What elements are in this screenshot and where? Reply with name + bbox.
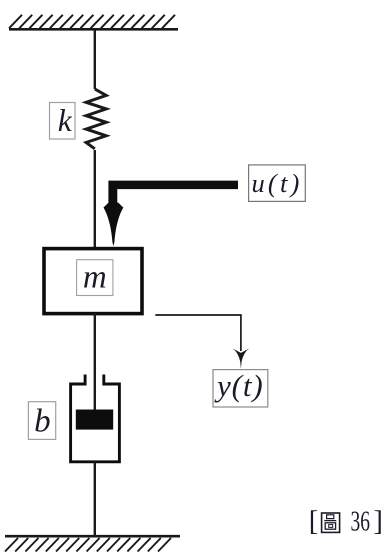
floor hatching bbox=[5, 538, 171, 552]
label box b bbox=[28, 402, 55, 440]
y(t) arrowhead bbox=[233, 349, 250, 369]
CJK glyph 圖 drawn as paths bbox=[322, 513, 340, 532]
ceiling line bbox=[9, 28, 178, 31]
svg-text:]: ] bbox=[373, 506, 383, 537]
svg-text:m: m bbox=[83, 260, 107, 296]
svg-text:b: b bbox=[34, 404, 51, 440]
label box m bbox=[77, 260, 113, 296]
label box u(t) bbox=[249, 165, 306, 202]
label box k bbox=[50, 103, 76, 140]
y(t) output wire bbox=[155, 315, 241, 351]
piston rod from mass to damper bbox=[94, 313, 96, 413]
u(t) thick input arrow shaft bbox=[108, 181, 238, 211]
svg-text:k: k bbox=[58, 103, 73, 138]
damper piston bbox=[76, 410, 113, 430]
wire rod from ceiling to spring bbox=[94, 29, 96, 89]
floor line bbox=[5, 535, 180, 538]
wire rod from spring to mass bbox=[94, 150, 96, 247]
wire rod from damper to floor bbox=[94, 462, 96, 536]
svg-text:[: [ bbox=[309, 506, 319, 537]
svg-text:y(t): y(t) bbox=[214, 368, 264, 403]
damper cylinder b bbox=[71, 375, 120, 462]
u(t) arrowhead bbox=[104, 202, 124, 246]
spring k zigzag bbox=[86, 89, 106, 149]
mass box m bbox=[44, 249, 142, 314]
svg-text:u(t): u(t) bbox=[251, 168, 302, 198]
label box y(t) bbox=[213, 370, 268, 407]
svg-text:36: 36 bbox=[351, 506, 371, 537]
ceiling hatching bbox=[9, 15, 175, 28]
